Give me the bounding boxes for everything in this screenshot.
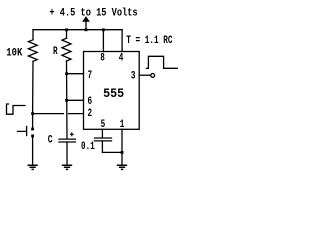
node junction dot cap 0.1 to pin 1: [121, 151, 124, 154]
power arrow head: [82, 16, 90, 22]
switch S1 bottom contact: [31, 135, 34, 138]
wire pin 3 output: [139, 74, 150, 76]
waveform input pulse: [7, 104, 26, 114]
wire pin 2 (right part after crossover gap): [69, 113, 84, 115]
node junction dot pin7: [65, 72, 68, 75]
svg-text:6: 6: [88, 96, 93, 108]
power arrow stem: [85, 22, 87, 30]
switch S1 actuator: [18, 127, 27, 136]
pin 3 output terminal circle: [151, 74, 155, 78]
wire switch bottom to ground: [32, 137, 34, 164]
wire pin 7: [67, 73, 84, 75]
ground (right, pin 1): [117, 165, 127, 169]
op-amp U1 555 timer box: [84, 52, 140, 130]
capacitor C plates: [59, 139, 75, 142]
svg-text:T = 1.1 RC: T = 1.1 RC: [126, 35, 173, 47]
wire trigger node down to switch: [32, 114, 34, 128]
resistor R2 R: [62, 38, 71, 61]
wire pin 1 down to ground: [121, 129, 123, 164]
svg-text:1: 1: [120, 119, 125, 131]
wire capacitor 0.1 bottom L to pin1 net: [102, 141, 122, 153]
svg-text:555: 555: [103, 86, 124, 101]
wire pin 4 from rail: [121, 30, 123, 52]
svg-text:8: 8: [100, 52, 105, 64]
svg-text:+ 4.5 to 15 Volts: + 4.5 to 15 Volts: [49, 8, 137, 20]
node junction dot trigger: [31, 112, 34, 115]
capacitor C polarity +: [70, 132, 74, 136]
ground (center, capacitor C): [62, 165, 72, 169]
wire 10K bottom to trigger node: [32, 61, 34, 114]
svg-text:C: C: [48, 134, 53, 146]
wire supply rail: [33, 29, 122, 31]
svg-text:5: 5: [101, 119, 106, 131]
capacitor C2 0.1 plates: [95, 138, 112, 141]
svg-text:0.1: 0.1: [81, 141, 95, 153]
wire pin 6: [67, 99, 84, 101]
resistor R1 10K: [28, 40, 37, 62]
wire pin 5 down to capacitor 0.1: [101, 129, 103, 138]
svg-text:7: 7: [88, 70, 93, 82]
node junction dot pin6: [65, 99, 68, 102]
switch S1 top contact: [31, 128, 34, 131]
svg-text:4: 4: [119, 52, 124, 64]
wire capacitor C to ground: [66, 142, 68, 165]
wire trigger node to pin 2 (left part): [33, 113, 64, 115]
wire node R bottom down to capacitor C: [66, 61, 69, 139]
waveform output pulse: [147, 56, 178, 68]
wire R top from rail: [66, 30, 68, 39]
node junction dot rail-arrow: [85, 28, 88, 31]
svg-text:2: 2: [88, 108, 93, 120]
wire pin 8 from rail: [102, 30, 104, 52]
wire left drop from rail to 10K: [32, 30, 34, 40]
svg-text:10K: 10K: [6, 48, 22, 60]
svg-text:3: 3: [131, 70, 136, 82]
svg-text:R: R: [53, 46, 58, 58]
node junction dot rail-pin8: [102, 28, 105, 31]
node junction dot rail-R: [65, 28, 68, 31]
ground (left, switch): [27, 165, 37, 169]
